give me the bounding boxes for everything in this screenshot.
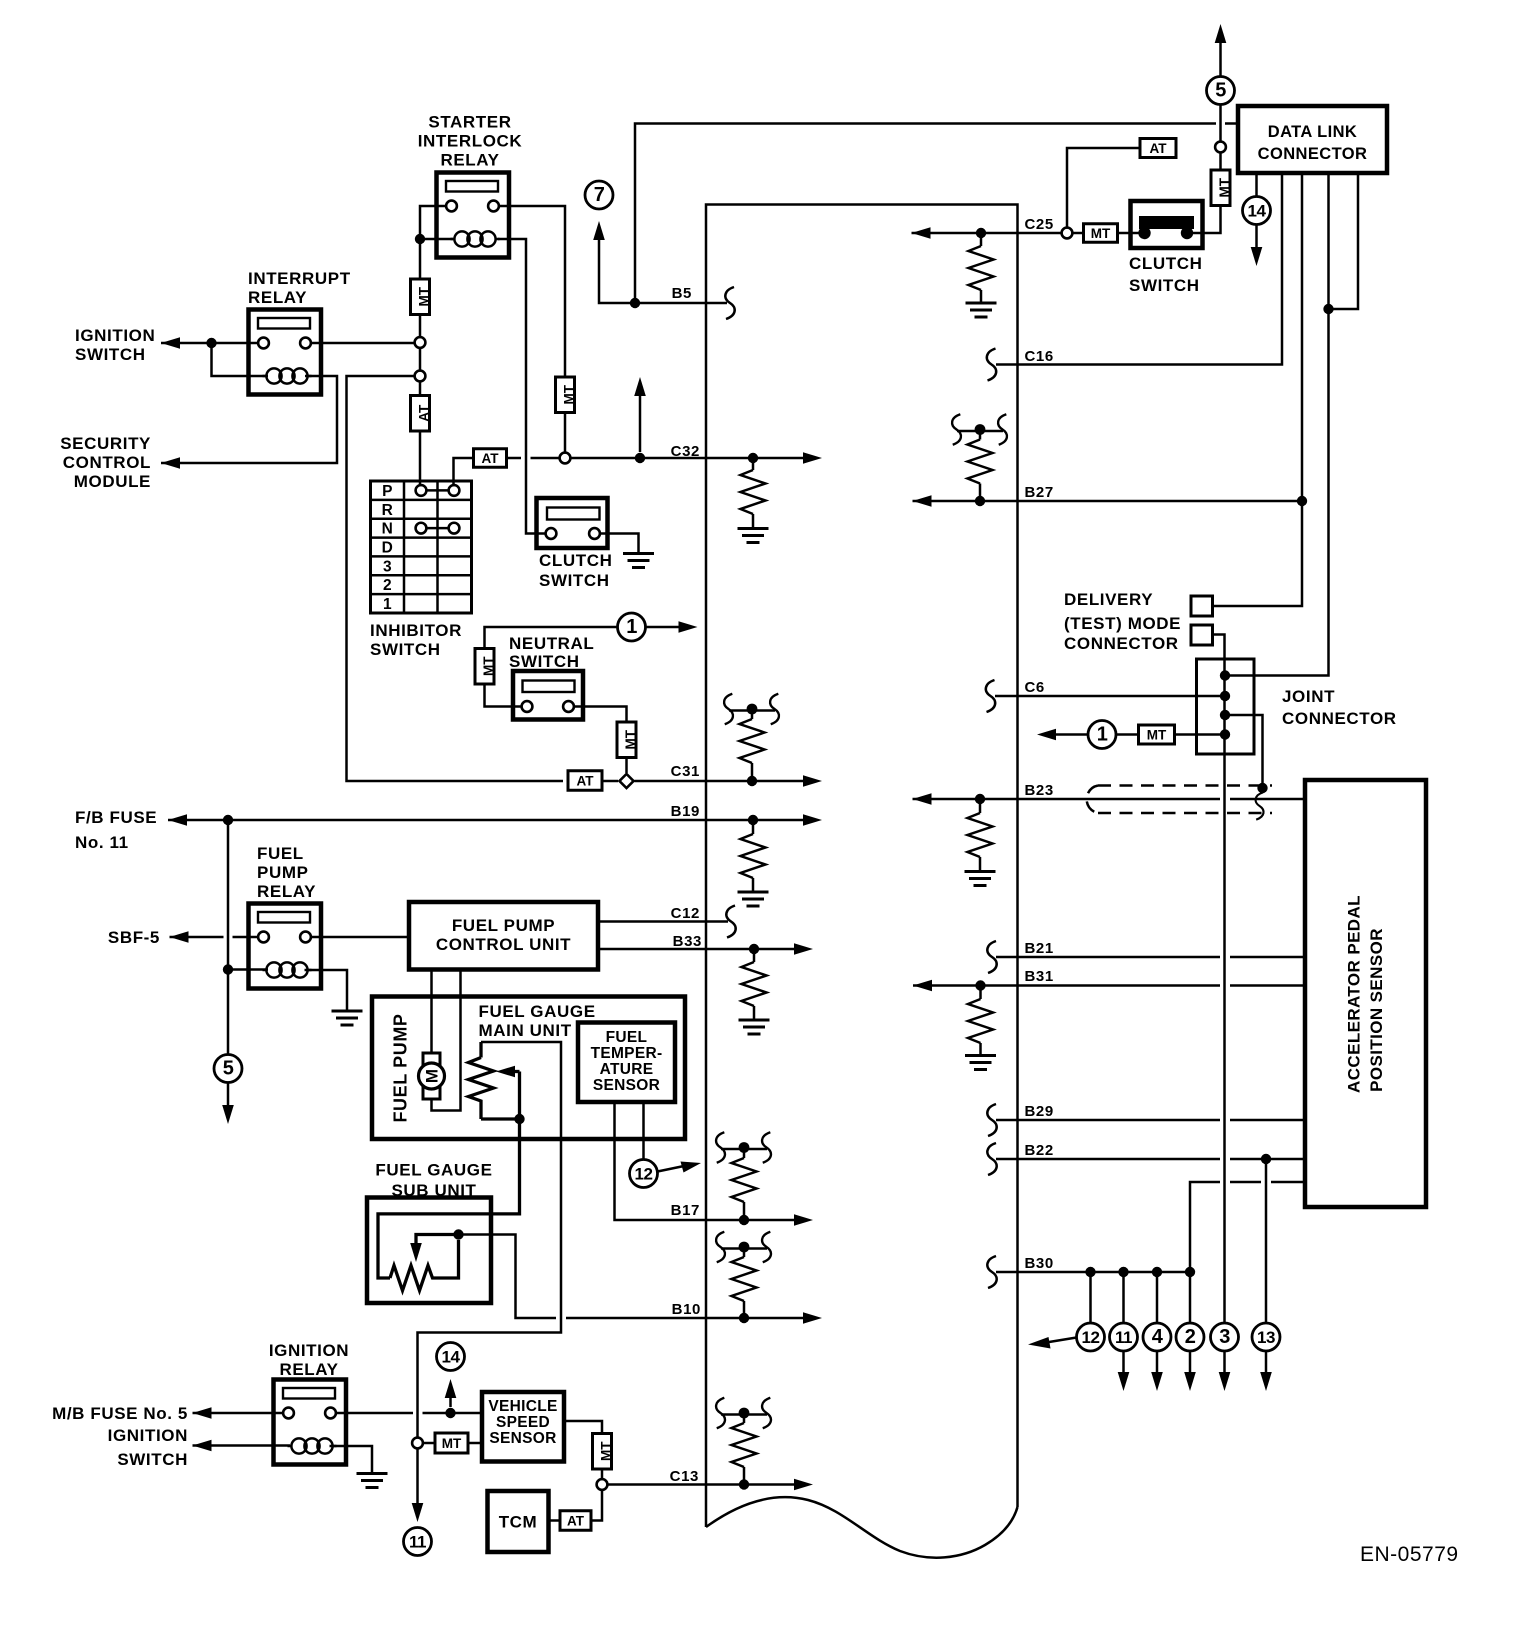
node contact circle AT/MT [1215, 142, 1226, 153]
wire motor bottom loop [432, 970, 461, 1111]
label ignition relay [269, 1341, 349, 1379]
svg-text:SWITCH: SWITCH [509, 652, 580, 671]
svg-text:2: 2 [1185, 1326, 1196, 1348]
wire coil right to ground [305, 970, 348, 1010]
ground ignition relay [357, 1472, 388, 1475]
svg-text:SWITCH: SWITCH [117, 1450, 188, 1469]
svg-text:FUEL: FUEL [257, 844, 304, 863]
svg-text:MAIN UNIT: MAIN UNIT [479, 1021, 572, 1040]
arrow C25 left [912, 227, 931, 239]
wire circle to MT [423, 1442, 435, 1445]
squiggle B5 end [725, 287, 734, 319]
wire dot3 to shield [1225, 715, 1263, 788]
node sub unit junction [453, 1229, 463, 1239]
node B17 resistor junction [739, 1215, 749, 1225]
node C32 junction with up arrow [635, 453, 645, 463]
svg-text:SENSOR: SENSOR [593, 1077, 660, 1094]
ground below B19 resistor [738, 891, 769, 894]
wire circle up through circled 5 to arrow [1219, 42, 1222, 142]
label data link connector [1258, 123, 1368, 163]
svg-text:MT: MT [1217, 177, 1232, 197]
svg-text:FUEL: FUEL [606, 1029, 648, 1046]
node contact circle C25 [1062, 228, 1073, 239]
svg-text:AT: AT [482, 451, 500, 466]
ground clutch switch [623, 552, 654, 555]
label security control module [60, 434, 151, 491]
svg-text:2: 2 [383, 577, 392, 594]
wire AT-C32 branch to P right contact [454, 458, 475, 485]
arrow circled 12 diagonal [658, 1166, 685, 1172]
node contact circle upper [415, 337, 426, 348]
node contact circle MT vss [412, 1438, 423, 1449]
svg-text:1: 1 [1097, 724, 1108, 746]
label fuel gauge main unit [479, 1002, 596, 1040]
fuel gauge sub unit box [367, 1198, 491, 1304]
svg-text:R: R [382, 502, 393, 519]
node joint dot2 [1220, 691, 1230, 701]
wire MT to C32 contact [564, 413, 567, 453]
wiper arrow main unit [505, 1070, 520, 1073]
svg-text:SECURITY: SECURITY [60, 434, 151, 453]
wire ignition switch to coil [193, 1444, 291, 1447]
AT box starter [411, 396, 430, 432]
node B27 junction on pin3 [1297, 496, 1307, 506]
node junction coil feed [223, 964, 233, 974]
svg-text:3: 3 [383, 558, 392, 575]
node B19 resistor junction [748, 815, 758, 825]
resistor below C32 [752, 463, 755, 470]
squiggle B30 [987, 1256, 996, 1288]
wire junction down to coil [212, 343, 269, 376]
clutch switch top right [1131, 201, 1203, 248]
wire stem circled 14 [449, 1392, 452, 1407]
arrow circled 12 to bus [1046, 1338, 1077, 1343]
svg-text:B30: B30 [1025, 1255, 1054, 1272]
wire junction to coil [228, 968, 268, 971]
svg-text:FUEL GAUGE: FUEL GAUGE [375, 1161, 492, 1180]
node B30 junction 4 [1152, 1267, 1162, 1277]
AT box C31 [568, 771, 602, 791]
wire main dot down into sub unit loop [378, 1119, 520, 1278]
svg-text:CONNECTOR: CONNECTOR [1064, 634, 1179, 653]
svg-text:No. 11: No. 11 [75, 833, 129, 852]
svg-text:IGNITION: IGNITION [108, 1426, 188, 1445]
wire MT to C13 circle [601, 1469, 604, 1479]
squiggle B21 [987, 941, 996, 973]
arrow B33 right [794, 943, 813, 955]
svg-text:PUMP: PUMP [257, 863, 309, 882]
node circled 11 [404, 1528, 432, 1556]
wire joint vertical through box [1223, 659, 1226, 1323]
svg-text:NEUTRAL: NEUTRAL [509, 634, 594, 653]
wire AT to C25 vertical [1067, 148, 1140, 228]
resistor below B19 [752, 825, 755, 834]
wire C12 from control unit [598, 920, 728, 923]
svg-text:RELAY: RELAY [440, 151, 499, 170]
svg-text:SWITCH: SWITCH [370, 640, 441, 659]
svg-text:B17: B17 [671, 1202, 700, 1219]
wire B22 row [996, 1158, 1305, 1161]
node joint dot3 [1220, 710, 1230, 720]
accelerator pedal position sensor box [1305, 780, 1426, 1207]
svg-text:3: 3 [1219, 1326, 1230, 1348]
wire MT to neutral left contact [485, 684, 522, 707]
svg-text:C13: C13 [670, 1468, 699, 1485]
arrow ignition switch [161, 337, 180, 349]
node circled 13 bottom [1252, 1323, 1280, 1351]
ground below B31 resistor [965, 1054, 996, 1057]
svg-text:5: 5 [1215, 80, 1226, 102]
arrow down [1219, 1372, 1231, 1391]
node contact circle C13 [597, 1479, 608, 1490]
ground below B23 resistor [965, 870, 996, 873]
arrow ignition switch bottom [193, 1440, 212, 1452]
arrow down [1118, 1372, 1130, 1391]
svg-text:AT: AT [1150, 141, 1168, 156]
svg-text:SBF-5: SBF-5 [108, 928, 160, 947]
wire B5 row [629, 302, 727, 305]
node circled 14 top [1243, 197, 1271, 225]
resistor above C13 [743, 1413, 746, 1423]
label F/B fuse [75, 808, 157, 852]
label fuel gauge sub unit [375, 1161, 492, 1201]
svg-text:DELIVERY: DELIVERY [1064, 590, 1153, 609]
arrow C13 right [794, 1479, 813, 1491]
arrow B27 left [913, 495, 932, 507]
svg-text:RELAY: RELAY [279, 1360, 338, 1379]
svg-text:13: 13 [1257, 1328, 1275, 1347]
resistor below C25 [980, 238, 983, 246]
svg-text:CONTROL: CONTROL [63, 453, 151, 472]
fuel pump assembly box [372, 997, 685, 1140]
node B31 resistor junction [975, 980, 985, 990]
wire B27 row [913, 500, 1303, 503]
wire up arrow stem [639, 394, 642, 452]
wire down to circled 4 [1156, 1272, 1159, 1323]
wire circle down to circled 11 [416, 1449, 419, 1511]
node junction ignition [206, 338, 216, 348]
wire MT to clutch switch [1118, 232, 1141, 235]
svg-text:N: N [382, 521, 393, 538]
wire down to circled 11 [1122, 1272, 1125, 1323]
MT box starter right [556, 377, 575, 413]
node circled 2 bottom [1176, 1323, 1204, 1351]
node B5 junction [630, 298, 640, 308]
svg-text:M: M [423, 1069, 442, 1083]
svg-text:1: 1 [626, 616, 637, 638]
svg-text:JOINT: JOINT [1282, 687, 1335, 706]
wire lower contact circle to C31 long run [347, 376, 564, 781]
arrow DLC pin1 down [1251, 247, 1263, 266]
resistor above B10 [743, 1247, 746, 1257]
svg-text:DATA LINK: DATA LINK [1268, 123, 1357, 141]
wire B21 row [996, 956, 1305, 959]
label fuel pump relay [257, 844, 316, 901]
node circled 11 bottom [1110, 1323, 1138, 1351]
node C25 resistor junction [976, 228, 986, 238]
svg-text:ATURE: ATURE [600, 1061, 654, 1078]
arrow up top [1215, 24, 1227, 43]
svg-text:IGNITION: IGNITION [269, 1341, 349, 1360]
resistor above B17 [743, 1148, 746, 1159]
wire relay left contact to MT [420, 206, 446, 279]
node circled 3 bottom [1211, 1323, 1239, 1351]
vehicle speed sensor box [482, 1392, 564, 1462]
svg-text:C31: C31 [671, 763, 700, 780]
fuel temperature sensor box [578, 1023, 675, 1103]
node main unit junction [514, 1114, 524, 1124]
svg-text:11: 11 [409, 1533, 426, 1552]
label starter interlock relay [418, 113, 523, 170]
wire B19 row [168, 819, 803, 822]
svg-text:FUEL GAUGE: FUEL GAUGE [479, 1002, 596, 1021]
svg-text:C12: C12 [671, 905, 700, 922]
main unit resistor [479, 1042, 482, 1058]
shield break above B17 [721, 1148, 767, 1151]
shield break above B27 [957, 430, 1003, 433]
node B10 resistor junction [739, 1313, 749, 1323]
svg-text:TEMPER-: TEMPER- [591, 1045, 663, 1062]
wire SBF-5 to relay contact [170, 936, 259, 939]
wire arrow below circle [1156, 1351, 1159, 1379]
node B30 junction 12 [1085, 1267, 1095, 1277]
svg-text:12: 12 [1082, 1328, 1100, 1347]
node circled 14 bottom [437, 1343, 465, 1371]
arrow down [1260, 1372, 1272, 1391]
node circled 4 bottom [1143, 1323, 1171, 1351]
wire arrow below circle [1265, 1351, 1268, 1379]
wire main resistor top to B10 long [418, 1042, 562, 1438]
wiper arrow sub unit [416, 1235, 459, 1249]
wire C6 row [995, 695, 1225, 698]
svg-text:AT: AT [577, 774, 595, 789]
svg-text:MODULE: MODULE [74, 472, 151, 491]
delivery connector square 2 [1191, 625, 1213, 645]
svg-text:B31: B31 [1025, 968, 1054, 985]
fuel pump motor [419, 1053, 445, 1099]
MT box joint [1139, 725, 1175, 744]
wire DLC pin5 to pin4 [1329, 173, 1359, 309]
node B33 resistor junction [749, 944, 759, 954]
svg-text:CONTROL UNIT: CONTROL UNIT [436, 935, 571, 954]
arrow up from C32 [634, 377, 646, 396]
wire C32 row [571, 457, 804, 460]
wire M/B fuse row [193, 1412, 284, 1415]
sub unit resistor horizontal [390, 1240, 459, 1291]
MT box C25 [1084, 224, 1118, 243]
MT box neutral right [617, 722, 636, 758]
svg-text:VEHICLE: VEHICLE [488, 1398, 557, 1415]
node inhibitor P contacts [421, 489, 454, 492]
ground fuel pump relay [332, 1010, 363, 1013]
resistor above B27 [979, 430, 982, 440]
wire circle to MT [1073, 232, 1084, 235]
wire VSS to MT right [564, 1421, 602, 1434]
wire down to circled 12 [1089, 1272, 1092, 1323]
wire circled1 line left to MT [485, 627, 618, 649]
label interrupt relay [248, 269, 351, 307]
svg-text:B27: B27 [1025, 484, 1054, 501]
wire relay right contact to control unit [311, 936, 409, 939]
node C31 diamond contact [619, 774, 633, 788]
wire temp sensor right pin to circled 12 [642, 1102, 645, 1160]
svg-text:B29: B29 [1025, 1103, 1054, 1120]
svg-text:CONNECTOR: CONNECTOR [1282, 709, 1397, 728]
MT box vss [435, 1433, 468, 1453]
svg-text:4: 4 [1152, 1326, 1164, 1348]
node C32 resistor junction [748, 453, 758, 463]
node circled 5 top [1207, 77, 1235, 105]
label neutral switch [509, 634, 594, 671]
svg-text:C16: C16 [1025, 348, 1054, 365]
svg-text:SWITCH: SWITCH [75, 345, 146, 364]
wire coil right to ground [330, 1446, 373, 1472]
label fuel pump control unit [436, 916, 571, 954]
arrow down [1184, 1372, 1196, 1391]
resistor above C31 [751, 709, 754, 719]
wire C31 diamond to right [635, 780, 804, 783]
neutral switch box [513, 671, 583, 720]
arrow down [1151, 1372, 1163, 1391]
svg-text:MT: MT [442, 1436, 462, 1451]
wire circled7 stem to B5 [599, 235, 629, 303]
arrow C31 right [803, 775, 822, 787]
wire circled1 to arrow [1054, 733, 1088, 736]
svg-text:MT: MT [562, 384, 577, 404]
arrow F/B fuse left [168, 814, 187, 826]
shield pigtail squiggle [1256, 792, 1264, 819]
wire wiper down to dot [518, 1072, 521, 1120]
label delivery test mode connector [1064, 590, 1181, 653]
node B30 junction 11 [1118, 1267, 1128, 1277]
starter interlock relay [437, 173, 510, 258]
wire arrow below circle [1189, 1351, 1192, 1379]
wire neutral right contact to MT [574, 707, 627, 723]
wire square2 to joint vertical [1213, 635, 1225, 660]
wire MT to contact circle [419, 315, 422, 338]
wire MT to C31 diamond [625, 758, 628, 774]
wire clutch right lead up through MT [1187, 206, 1221, 234]
wire sub unit dot to B10 [459, 1235, 804, 1319]
arrow B19 right [803, 814, 822, 826]
node C13 resistor junction [739, 1479, 749, 1489]
svg-text:7: 7 [594, 184, 605, 206]
label clutch switch top [1129, 254, 1202, 295]
squiggle C16 [987, 349, 996, 381]
wire C13 row [608, 1483, 804, 1486]
svg-text:14: 14 [442, 1348, 461, 1367]
svg-text:FUEL PUMP: FUEL PUMP [391, 1013, 411, 1122]
wire temp sensor left pin to B17 [615, 1102, 804, 1220]
svg-text:MT: MT [481, 656, 496, 676]
fuel pump control unit box [409, 902, 598, 970]
node joint dot4 [1220, 729, 1230, 739]
node circled 5 down [214, 1055, 242, 1083]
node circled 1 top [618, 613, 646, 641]
svg-text:CONNECTOR: CONNECTOR [1258, 145, 1368, 163]
wire relay right contact to MT right [499, 206, 565, 377]
svg-text:TCM: TCM [499, 1513, 538, 1532]
svg-text:MT: MT [623, 729, 638, 749]
node B22 junction [1261, 1154, 1271, 1164]
wire B29 row [996, 1119, 1305, 1122]
arrow down circled 11 [412, 1503, 424, 1522]
svg-text:14: 14 [1248, 202, 1267, 221]
svg-text:EN-05779: EN-05779 [1360, 1543, 1459, 1566]
shield break above B10 [721, 1247, 767, 1250]
arrow up to circled 7 [593, 221, 605, 240]
label ignition switch top [75, 326, 155, 364]
svg-text:SWITCH: SWITCH [539, 571, 610, 590]
wire B5 vertical to top run [635, 124, 1238, 304]
svg-text:5: 5 [223, 1058, 234, 1080]
ignition relay [274, 1380, 347, 1465]
wire ignition switch line [161, 342, 259, 345]
MT box neutral left [475, 649, 494, 685]
svg-text:FUEL PUMP: FUEL PUMP [452, 916, 555, 935]
dashed shield around B23 [1087, 786, 1272, 814]
wire clutch switch to ground [600, 534, 639, 553]
arrow B17 right [794, 1214, 813, 1226]
arrow B23 left [913, 793, 932, 805]
node shield dot [1257, 783, 1267, 793]
wire vertical B19 to circled 5 [227, 820, 230, 1055]
joint connector box [1197, 659, 1255, 754]
svg-text:M/B FUSE No. 5: M/B FUSE No. 5 [52, 1404, 188, 1423]
svg-text:AT: AT [567, 1514, 585, 1529]
svg-text:B22: B22 [1025, 1142, 1054, 1159]
wire DLC pin4 down to joint connector [1225, 173, 1329, 676]
wire coil right to security module [161, 376, 337, 463]
svg-text:B33: B33 [673, 933, 702, 950]
AT box near C32 [474, 449, 507, 468]
arrow SBF-5 [170, 931, 189, 943]
svg-text:CLUTCH: CLUTCH [539, 551, 612, 570]
label joint connector [1282, 687, 1397, 728]
wire MT to VSS [468, 1442, 482, 1445]
wire circled1 to arrow [646, 626, 681, 629]
svg-text:C25: C25 [1025, 216, 1054, 233]
wire bus wavy bottom [706, 1497, 1018, 1558]
node junction circled 14 [445, 1408, 455, 1418]
data link connector box [1238, 106, 1387, 173]
arrow C32 right [803, 452, 822, 464]
wire relay right contact to VSS [336, 1412, 482, 1415]
ground below C25 resistor [966, 302, 997, 305]
wire DLC pin3 to delivery connector [1213, 173, 1303, 606]
node inhibitor N contacts [421, 527, 454, 530]
label ignition switch bottom [108, 1426, 188, 1469]
arrow circled 1 left [1037, 729, 1056, 741]
svg-text:12: 12 [635, 1165, 653, 1184]
svg-text:IGNITION: IGNITION [75, 326, 155, 345]
wire DLC pin1 [1255, 173, 1258, 249]
wire AT to TCM [549, 1519, 561, 1522]
arrow up to circled 14 [445, 1379, 457, 1398]
delivery connector square 1 [1191, 596, 1213, 616]
TCM box [488, 1491, 549, 1552]
label clutch switch [539, 551, 612, 590]
wire resistor bottom to dot [481, 1117, 520, 1120]
node circled 12 [630, 1160, 658, 1188]
MT box right of VSS [593, 1434, 612, 1470]
svg-text:SPEED: SPEED [496, 1414, 550, 1431]
node B19 left junction [223, 815, 233, 825]
wire B30 row [996, 1271, 1189, 1274]
svg-text:F/B FUSE: F/B FUSE [75, 808, 157, 827]
svg-text:SWITCH: SWITCH [1129, 276, 1200, 295]
shield break above C13 [721, 1413, 767, 1416]
